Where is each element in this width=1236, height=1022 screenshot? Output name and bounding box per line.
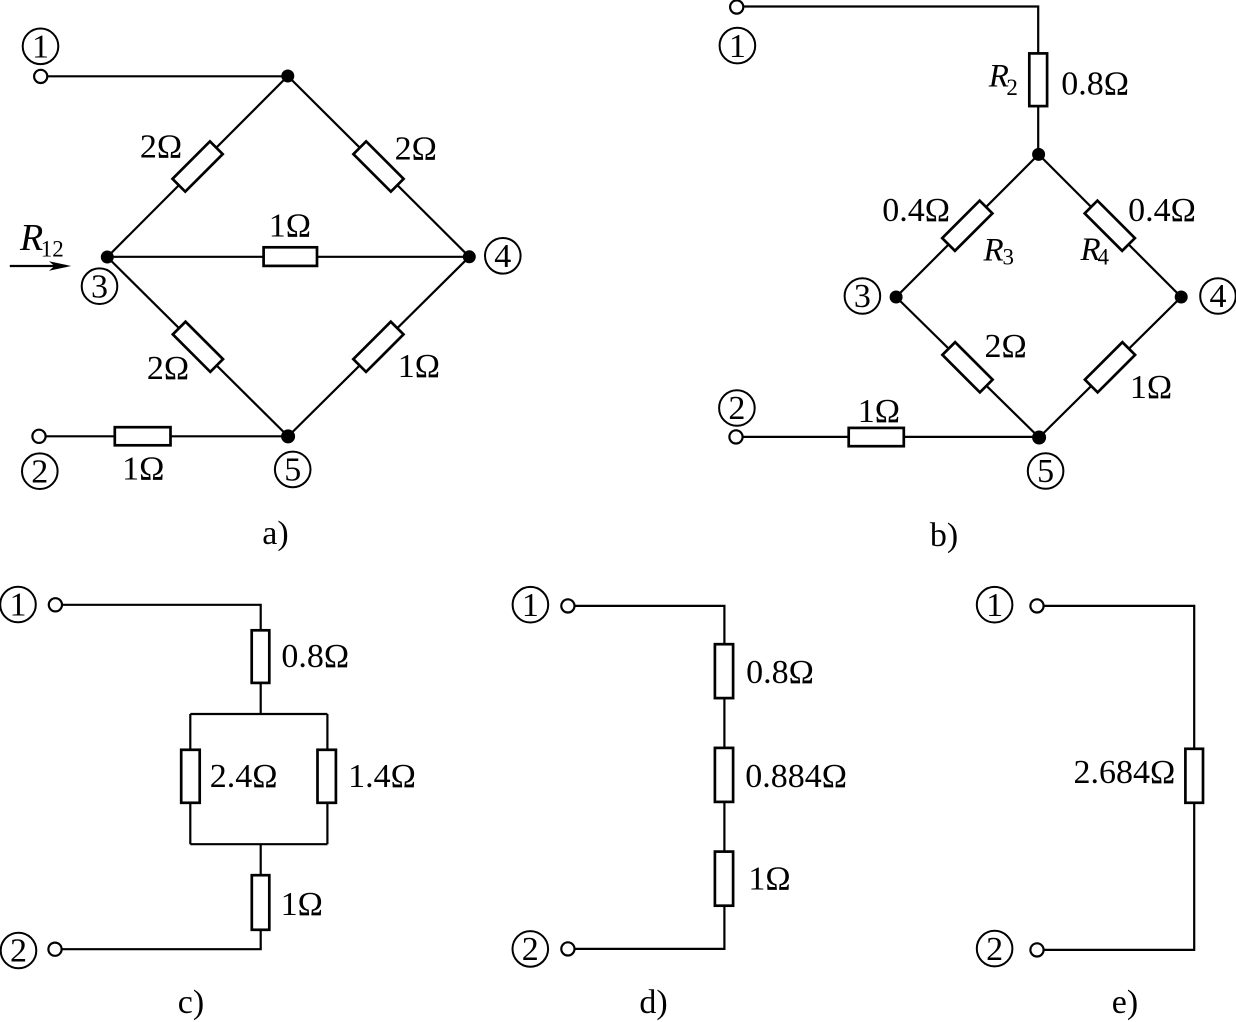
wire terminal1 to resistor (e) — [1044, 606, 1195, 749]
terminal node 2 open circle (b) — [729, 430, 742, 443]
terminal circle 2 (b) — [719, 390, 755, 426]
terminal node 1 open circle (c) — [49, 598, 62, 611]
svg-text:2: 2 — [1006, 75, 1018, 100]
wire right branch lower (c) — [326, 803, 328, 844]
resistor 1ohm (d) — [715, 852, 733, 906]
terminal circle 1 (b) — [720, 28, 756, 64]
svg-text:2: 2 — [728, 390, 745, 427]
resistor R4 0.4ohm (b) — [1085, 201, 1135, 251]
svg-text:1Ω: 1Ω — [269, 208, 311, 245]
svg-text:1Ω: 1Ω — [122, 450, 164, 487]
svg-text:0.884Ω: 0.884Ω — [745, 758, 847, 795]
node 5 circle label (b) — [1028, 453, 1064, 489]
svg-text:2: 2 — [986, 931, 1003, 968]
svg-text:4: 4 — [1210, 278, 1227, 315]
svg-text:2.4Ω: 2.4Ω — [210, 758, 278, 795]
terminal node 1 open circle (b) — [730, 0, 743, 13]
svg-text:2Ω: 2Ω — [147, 350, 189, 387]
svg-text:5: 5 — [284, 452, 301, 489]
svg-text:0.8Ω: 0.8Ω — [281, 638, 349, 675]
svg-text:1Ω: 1Ω — [281, 886, 323, 923]
wire 1ohm to terminal2 (d) — [575, 906, 725, 949]
wire resistor to terminal2 (e) — [1044, 803, 1195, 950]
svg-text:0.4Ω: 0.4Ω — [882, 192, 950, 229]
wire right branch upper (c) — [326, 714, 328, 750]
svg-text:0.4Ω: 0.4Ω — [1128, 192, 1196, 229]
node 3 circle label (a) — [82, 268, 118, 304]
resistor 1ohm bottom (b) — [849, 428, 904, 446]
wire 0.884ohm to 1ohm (d) — [723, 802, 725, 852]
wire left branch lower (c) — [189, 803, 191, 844]
resistor 1ohm lower-right (b) — [1085, 342, 1135, 392]
resistor 2ohm lower-left (a) — [173, 322, 223, 372]
node 4 circle label (b) — [1200, 278, 1236, 314]
wire left branch upper (c) — [189, 714, 191, 750]
resistor 2ohm upper-left (a) — [172, 141, 222, 191]
resistor 0.8ohm (c) — [252, 630, 270, 683]
svg-text:a): a) — [262, 515, 288, 552]
wire node3 to node5 (b) — [896, 297, 1039, 438]
resistor 1ohm lower-right (a) — [353, 322, 403, 372]
svg-text:1: 1 — [986, 587, 1003, 624]
terminal node 1 open circle (e) — [1030, 599, 1043, 612]
resistor 1ohm bottom (a) — [115, 427, 171, 445]
wire parallel block to 1ohm (c) — [260, 844, 262, 875]
svg-text:2Ω: 2Ω — [140, 129, 182, 166]
node 3 circle label (b) — [845, 278, 881, 314]
node 5 dot (a) — [281, 429, 295, 443]
wire top node to node4 (a) — [288, 76, 470, 257]
wire terminal1 to R2 (b) — [744, 7, 1039, 54]
svg-text:c): c) — [178, 984, 204, 1021]
resistor R2 0.8ohm (b) — [1029, 53, 1047, 106]
terminal circle 2 (c) — [1, 933, 37, 969]
svg-text:2: 2 — [10, 933, 27, 970]
svg-text:2: 2 — [31, 453, 48, 490]
svg-text:2Ω: 2Ω — [985, 328, 1027, 365]
node 4 circle label (a) — [485, 238, 521, 274]
wire top node to node3 (b) — [896, 154, 1039, 297]
wire node5 to node4 (a) — [288, 257, 469, 437]
svg-text:1Ω: 1Ω — [398, 348, 440, 385]
svg-text:5: 5 — [1037, 453, 1054, 490]
terminal node 2 open circle (c) — [48, 943, 61, 956]
node 5 dot (b) — [1032, 431, 1046, 445]
wire node3 to top node (a) — [107, 76, 287, 257]
wire top node to node4 (b) — [1039, 154, 1182, 297]
wire parallel top bar (c) — [190, 713, 327, 715]
node 5 circle label (a) — [275, 452, 311, 488]
terminal circle 2 (e) — [977, 931, 1013, 967]
resistor 1.4ohm (c) — [318, 750, 336, 803]
wire parallel bottom bar (c) — [190, 843, 327, 845]
wire terminal1 to 0.8ohm (c) — [62, 605, 261, 631]
svg-text:0.8Ω: 0.8Ω — [746, 654, 814, 691]
wire terminal2 to node5 (b) — [743, 436, 1040, 438]
terminal node 2 open circle (e) — [1030, 943, 1043, 956]
wire 1ohm to terminal2 (c) — [62, 930, 261, 949]
wire node5 to node4 (b) — [1039, 297, 1181, 438]
svg-text:4: 4 — [1098, 245, 1110, 270]
svg-text:1: 1 — [10, 587, 27, 624]
svg-text:R: R — [19, 217, 43, 259]
svg-text:0.8Ω: 0.8Ω — [1061, 66, 1129, 103]
wire node3 to node4 (a) — [107, 256, 469, 258]
node 4 dot (a) — [463, 250, 476, 263]
svg-text:3: 3 — [91, 268, 108, 305]
node 4 dot (b) — [1175, 291, 1188, 304]
svg-text:2Ω: 2Ω — [395, 131, 437, 168]
wire 0.8ohm to parallel block (c) — [260, 683, 262, 714]
node 3 dot (a) — [101, 251, 114, 264]
resistor 2.684ohm (e) — [1185, 749, 1203, 803]
terminal circle 2 (d) — [513, 931, 549, 967]
svg-text:3: 3 — [1003, 245, 1015, 270]
resistor 1ohm (c) — [252, 875, 269, 930]
svg-text:12: 12 — [41, 237, 64, 262]
svg-text:d): d) — [639, 984, 667, 1021]
terminal circle 1 (e) — [977, 587, 1013, 623]
svg-text:2.684Ω: 2.684Ω — [1074, 754, 1176, 791]
svg-text:2: 2 — [522, 931, 539, 968]
svg-text:1: 1 — [32, 29, 49, 66]
wire terminal1 to 0.8ohm (d) — [575, 606, 725, 644]
svg-text:1Ω: 1Ω — [858, 393, 900, 430]
svg-text:3: 3 — [854, 278, 871, 315]
svg-text:1Ω: 1Ω — [1130, 369, 1172, 406]
resistor 2ohm upper-right (a) — [353, 141, 403, 191]
resistor 0.8ohm (d) — [715, 644, 733, 698]
arrow R12 (a) — [10, 265, 66, 267]
svg-text:e): e) — [1112, 984, 1138, 1021]
wire terminal1 to top node (a) — [47, 75, 287, 77]
node 3 dot (b) — [890, 291, 903, 304]
svg-text:1.4Ω: 1.4Ω — [348, 758, 416, 795]
terminal node 2 open circle (d) — [561, 942, 574, 955]
svg-text:1Ω: 1Ω — [748, 861, 790, 898]
terminal circle 1 (d) — [513, 587, 549, 623]
terminal node 2 open circle (a) — [32, 430, 45, 443]
resistor R3 0.4ohm (b) — [942, 201, 992, 251]
wire node3 to node5 (a) — [107, 257, 288, 436]
resistor 0.884ohm (d) — [715, 748, 733, 802]
wire terminal2 to node5 (a) — [46, 435, 289, 437]
terminal circle 2 (a) — [22, 453, 58, 489]
wire 0.8ohm to 0.884ohm (d) — [723, 698, 725, 748]
svg-text:R: R — [983, 233, 1004, 269]
resistor 2ohm lower-left (b) — [942, 342, 992, 392]
svg-text:1: 1 — [729, 28, 746, 65]
terminal circle 1 (a) — [23, 29, 59, 65]
svg-text:1: 1 — [522, 587, 539, 624]
svg-text:b): b) — [930, 517, 958, 554]
node top junction dot (b) — [1032, 148, 1045, 161]
terminal node 1 open circle (a) — [34, 70, 47, 83]
resistor 2.4ohm (c) — [181, 750, 200, 803]
resistor 1ohm middle (a) — [264, 247, 317, 266]
terminal node 1 open circle (d) — [561, 599, 574, 612]
terminal circle 1 (c) — [0, 587, 36, 623]
svg-text:4: 4 — [494, 238, 511, 275]
node top junction dot (a) — [281, 70, 294, 83]
wire R2 to top node (b) — [1037, 106, 1039, 154]
